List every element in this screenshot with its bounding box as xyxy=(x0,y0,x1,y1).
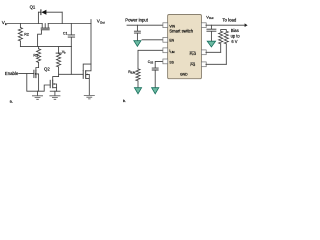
svg-text:up to: up to xyxy=(231,33,241,38)
wire bias rail xyxy=(221,30,227,32)
wire EN xyxy=(142,39,163,41)
ground G3 xyxy=(84,95,94,99)
wire ILIM xyxy=(138,50,163,69)
wire diode top xyxy=(38,11,62,13)
wire gate-node long vertical xyxy=(70,47,72,75)
IC pin VOUT xyxy=(201,23,206,28)
svg-text:a.: a. xyxy=(10,99,13,104)
ground G2 xyxy=(50,91,60,99)
svg-text:R2: R2 xyxy=(24,32,29,36)
capacitor Cin xyxy=(134,25,140,41)
wire gate rail xyxy=(20,46,71,48)
transistor Q2 label xyxy=(44,67,50,72)
IC pin SS xyxy=(163,59,175,64)
wire Q4 gate feed jog xyxy=(83,64,91,71)
wire Vout terminal tick xyxy=(90,20,92,24)
ground GB2 (green) xyxy=(134,88,141,94)
IC pin GND label xyxy=(180,73,188,77)
wire enable-gnd rectangle xyxy=(27,74,50,92)
label (a) xyxy=(10,99,13,104)
node To load label xyxy=(222,17,236,22)
IC U1 name xyxy=(169,29,193,34)
resistor Rpullup-FLG xyxy=(219,31,223,52)
IC pin PG xyxy=(190,62,206,67)
svg-text:Smart switch: Smart switch xyxy=(169,29,193,34)
svg-text:FLG: FLG xyxy=(190,52,197,56)
node Bias label xyxy=(231,28,241,44)
wire Vout to Q4 drain xyxy=(86,24,91,71)
wire gate-node to Q4 gate horizontal xyxy=(59,73,84,75)
resistor Rth with Vth node tick xyxy=(56,47,66,77)
node Vout label (b) xyxy=(206,14,213,20)
svg-text:Q2: Q2 xyxy=(44,67,50,72)
node Vin label xyxy=(2,20,8,26)
svg-text:Power input: Power input xyxy=(125,17,148,22)
IC pin EN xyxy=(163,37,175,42)
svg-text:C1: C1 xyxy=(63,32,68,36)
svg-text:b.: b. xyxy=(123,98,126,103)
IC U1 smart switch body xyxy=(168,15,202,79)
svg-text:Vb: Vb xyxy=(62,50,66,55)
wire Enable to Q2 gate xyxy=(19,73,34,75)
wire FLG line xyxy=(206,51,221,53)
svg-text:Q1: Q1 xyxy=(30,4,36,9)
capacitor Cout xyxy=(207,25,216,41)
resistor RILIM xyxy=(128,69,140,88)
transistor Q3 (lower NMOS, gate left) xyxy=(50,77,58,92)
wire diode loop left riser xyxy=(37,12,39,23)
node Enable label xyxy=(5,71,19,76)
node Power input label xyxy=(125,17,148,22)
wire Vout-side rail xyxy=(48,23,91,25)
svg-text:6 V: 6 V xyxy=(231,39,237,44)
wire power input to VIN xyxy=(127,24,163,26)
transistor Q4 (discharge NMOS, gate left) xyxy=(83,71,89,96)
svg-text:RILIM: RILIM xyxy=(128,70,135,75)
wire Q3 source rail xyxy=(50,90,60,92)
IC pin FLG xyxy=(190,50,207,56)
svg-text:To load: To load xyxy=(222,17,236,22)
ground GB3 (green) xyxy=(152,88,159,94)
transistor Q1 (PMOS, source/bulk/drain stubs + channel + gate bar) xyxy=(38,24,50,47)
svg-text:Bias: Bias xyxy=(231,28,239,33)
wire Vin rail xyxy=(7,23,42,25)
svg-text:Enable: Enable xyxy=(5,71,19,76)
svg-text:Vin: Vin xyxy=(2,20,8,26)
wire Vout to load with arrow xyxy=(206,23,248,27)
svg-text:R1: R1 xyxy=(33,54,38,58)
diode D1 (body diode of Q1, cathode bar left, filled triangle) xyxy=(41,10,47,15)
svg-text:VOut: VOut xyxy=(206,14,213,20)
svg-text:PG: PG xyxy=(190,63,195,67)
capacitor C1 xyxy=(63,24,75,47)
resistor R2 xyxy=(18,24,29,47)
wire diode loop right riser xyxy=(61,12,63,23)
svg-text:VIN: VIN xyxy=(169,25,175,29)
transistor Q1 label xyxy=(30,4,36,9)
IC pin ILIM xyxy=(163,48,175,54)
svg-text:ILIM: ILIM xyxy=(169,49,174,54)
IC pin VIN xyxy=(163,23,176,29)
ground GB1 (green) xyxy=(134,41,141,47)
label (b) xyxy=(123,98,126,103)
svg-text:CSS: CSS xyxy=(148,60,154,65)
transistor Q2 (NMOS, gate left) xyxy=(34,68,39,92)
wire SS xyxy=(155,61,163,68)
resistor R1 xyxy=(33,47,40,68)
ground G1 xyxy=(32,91,42,99)
svg-text:VOut: VOut xyxy=(97,19,105,25)
wire PG line xyxy=(206,63,226,65)
node Vout label (a) xyxy=(97,19,105,25)
svg-text:GND: GND xyxy=(180,73,188,77)
resistor Rpullup-PG xyxy=(224,31,228,64)
svg-text:EN: EN xyxy=(169,38,174,42)
svg-text:SS: SS xyxy=(169,60,174,64)
ground GB4 (green) xyxy=(207,41,215,47)
capacitor Css xyxy=(148,60,159,88)
